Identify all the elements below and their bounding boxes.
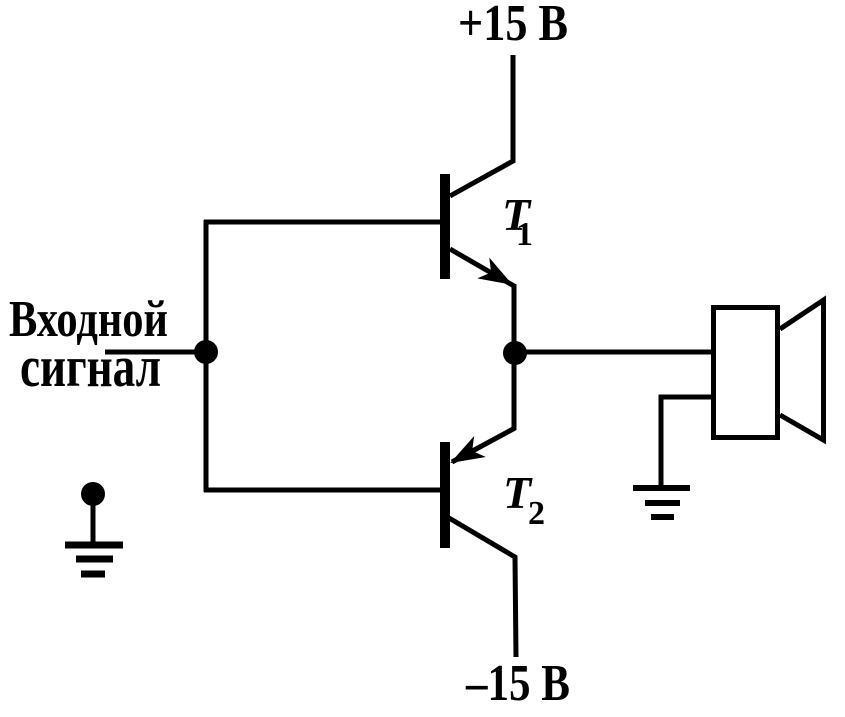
wire: left vertical base bus bbox=[204, 220, 209, 492]
node: output junction dot bbox=[503, 341, 527, 365]
transistor T2 base bar bbox=[440, 442, 450, 548]
wire: bottom base wire (to T2 base) bbox=[204, 488, 441, 493]
svg-text:–15 В: –15 В bbox=[465, 655, 570, 712]
speaker body rectangle bbox=[714, 308, 778, 438]
ground symbol (right, speaker return) bbox=[633, 488, 690, 517]
ground symbol (left) bbox=[65, 545, 123, 574]
transistor T2 emitter line bbox=[452, 428, 515, 462]
node: input junction dot bbox=[194, 340, 218, 364]
speaker horn bbox=[780, 300, 824, 440]
svg-text:сигнал: сигнал bbox=[20, 334, 161, 399]
wire: input signal horizontal bbox=[105, 350, 207, 355]
transistor T2 collector line and V- supply wire bbox=[449, 518, 516, 657]
wire: speaker return to ground bbox=[661, 397, 713, 487]
svg-text:+15 В: +15 В bbox=[458, 0, 568, 52]
svg-text:2: 2 bbox=[528, 495, 545, 532]
wire: output horizontal to speaker bbox=[515, 350, 713, 355]
transistor T1 emitter line bbox=[450, 249, 514, 286]
wire: middle emitter vertical (T1 emitter to T2 emitter) bbox=[512, 284, 517, 430]
label T2 bbox=[503, 467, 545, 532]
node: left ground terminal dot bbox=[81, 482, 105, 506]
wire: V+ supply vertical to T1 collector bbox=[450, 55, 513, 196]
wire: left ground stem bbox=[91, 494, 96, 545]
transistor T1 emitter arrowhead bbox=[477, 258, 518, 296]
label T1 bbox=[502, 189, 533, 253]
label Входной сигнал (input signal) bbox=[9, 291, 168, 399]
wire: top base wire (to T1 base) bbox=[204, 220, 441, 225]
transistor T2 emitter arrowhead bbox=[444, 436, 485, 473]
svg-text:1: 1 bbox=[516, 216, 533, 253]
transistor T1 base bar bbox=[440, 174, 450, 279]
